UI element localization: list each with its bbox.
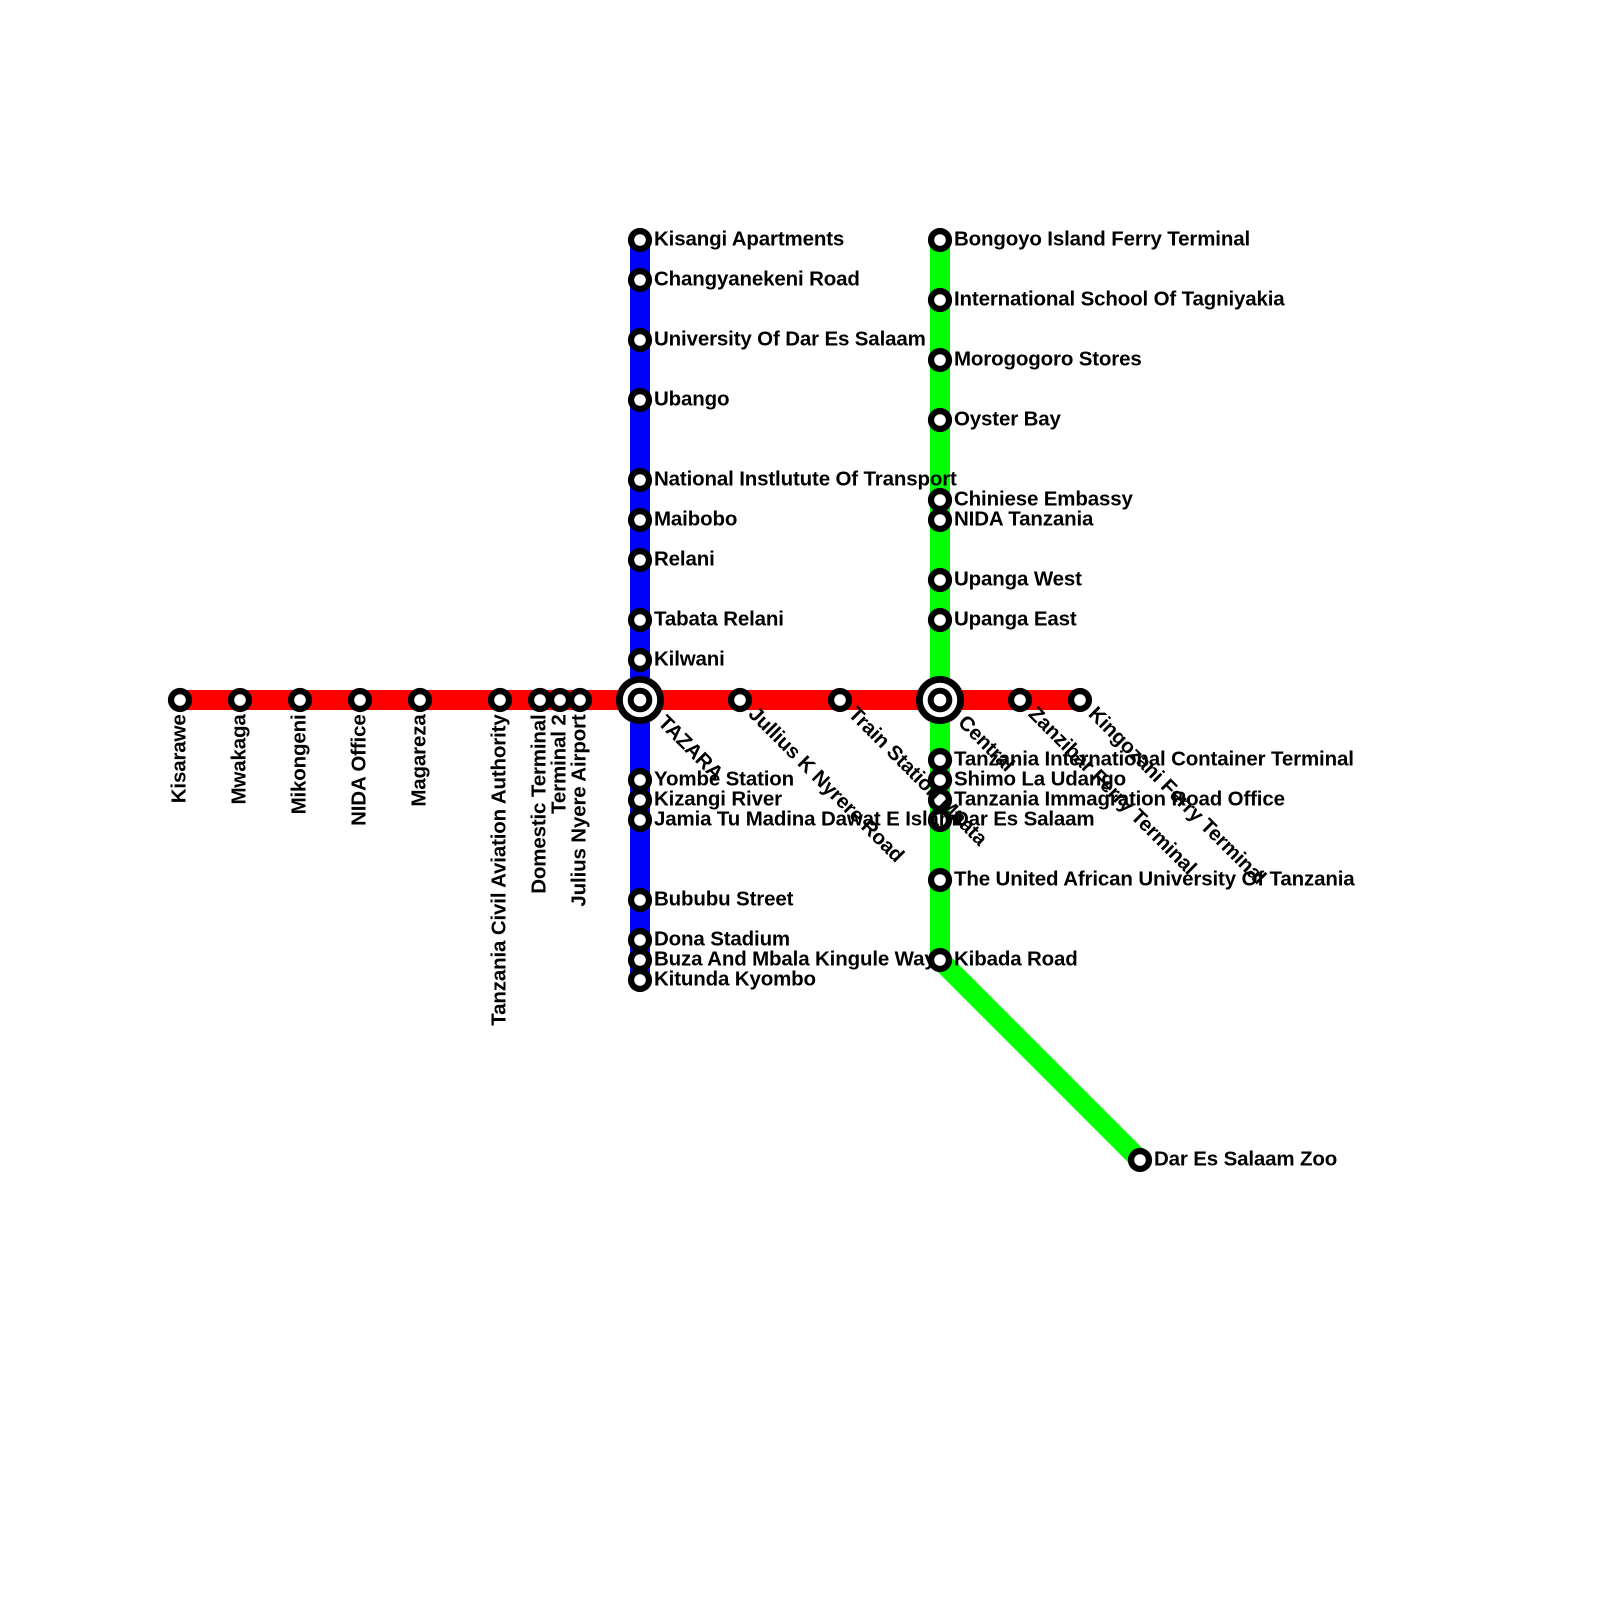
station Zanzibar Ferry Terminal marker bbox=[1008, 688, 1032, 712]
blue line bbox=[630, 240, 650, 980]
svg-text:Upanga East: Upanga East bbox=[954, 607, 1077, 630]
station Ubango marker bbox=[628, 388, 652, 412]
station Upanga East marker bbox=[928, 608, 952, 632]
station Tanzania Immagration Road Office marker bbox=[928, 788, 952, 812]
svg-text:Oyster Bay: Oyster Bay bbox=[954, 407, 1062, 430]
station Kitunda Kyombo marker bbox=[628, 968, 652, 992]
svg-text:Kisarawe: Kisarawe bbox=[167, 714, 190, 803]
station Tanzania Civil Aviation Authority marker bbox=[488, 688, 512, 712]
station Magareza marker bbox=[408, 688, 432, 712]
svg-text:Magareza: Magareza bbox=[407, 714, 430, 807]
station NIDA Office marker bbox=[348, 688, 372, 712]
station Domestic Terminal marker bbox=[528, 688, 552, 712]
station National Instlutute Of Transport marker bbox=[628, 468, 652, 492]
svg-text:Kisangi Apartments: Kisangi Apartments bbox=[654, 227, 844, 250]
station International School Of Tagniyakia marker bbox=[928, 288, 952, 312]
station Kingozani Ferry Terminal marker bbox=[1068, 688, 1092, 712]
station The United African University Of Tanzania marker bbox=[928, 868, 952, 892]
interchange Central marker bbox=[916, 676, 964, 724]
station Jamia Tu Madina Dawat E Islami marker bbox=[628, 808, 652, 832]
svg-text:Dar Es Salaam: Dar Es Salaam bbox=[954, 807, 1095, 830]
interchange TAZARA marker bbox=[616, 676, 664, 724]
station Yombe Station marker bbox=[628, 768, 652, 792]
svg-text:Upanga West: Upanga West bbox=[954, 567, 1082, 590]
station Dona Stadium marker bbox=[628, 928, 652, 952]
station Kisangi Apartments marker bbox=[628, 228, 652, 252]
svg-text:University Of Dar Es Salaam: University Of Dar Es Salaam bbox=[654, 327, 926, 350]
station Tanzania International Container Terminal marker bbox=[928, 748, 952, 772]
svg-text:Kibada Road: Kibada Road bbox=[954, 947, 1078, 970]
station Bububu Street marker bbox=[628, 888, 652, 912]
svg-text:The United African University: The United African University Of Tanzani… bbox=[954, 867, 1355, 890]
station Mwakaga marker bbox=[228, 688, 252, 712]
station Train Station Mnata marker bbox=[828, 688, 852, 712]
station Changyanekeni Road marker bbox=[628, 268, 652, 292]
svg-text:Morogogoro Stores: Morogogoro Stores bbox=[954, 347, 1142, 370]
svg-text:National Instlutute Of Transpo: National Instlutute Of Transport bbox=[654, 467, 957, 490]
svg-text:Changyanekeni Road: Changyanekeni Road bbox=[654, 267, 860, 290]
station Tabata Relani marker bbox=[628, 608, 652, 632]
station Kisarawe marker bbox=[168, 688, 192, 712]
svg-text:Maibobo: Maibobo bbox=[654, 507, 737, 530]
station Bongoyo Island Ferry Terminal marker bbox=[928, 228, 952, 252]
svg-text:NIDA Tanzania: NIDA Tanzania bbox=[954, 507, 1094, 530]
svg-text:Bongoyo Island Ferry Terminal: Bongoyo Island Ferry Terminal bbox=[954, 227, 1250, 250]
station Kilwani marker bbox=[628, 648, 652, 672]
svg-text:Tabata Relani: Tabata Relani bbox=[654, 607, 784, 630]
green line bbox=[940, 240, 1140, 1160]
svg-text:Mwakaga: Mwakaga bbox=[227, 714, 250, 805]
svg-text:Ubango: Ubango bbox=[654, 387, 729, 410]
svg-text:Kilwani: Kilwani bbox=[654, 647, 725, 670]
station Morogogoro Stores marker bbox=[928, 348, 952, 372]
svg-text:Mikongeni: Mikongeni bbox=[287, 714, 310, 814]
station NIDA Tanzania marker bbox=[928, 508, 952, 532]
station Oyster Bay marker bbox=[928, 408, 952, 432]
station Mikongeni marker bbox=[288, 688, 312, 712]
svg-text:International School Of Tagniy: International School Of Tagniyakia bbox=[954, 287, 1285, 310]
station Maibobo marker bbox=[628, 508, 652, 532]
svg-text:Jamia Tu Madina Dawat E Islami: Jamia Tu Madina Dawat E Islami bbox=[654, 807, 962, 830]
station Jullius K Nyrere Road marker bbox=[728, 688, 752, 712]
svg-text:NIDA Office: NIDA Office bbox=[347, 714, 370, 826]
svg-text:Dar Es Salaam Zoo: Dar Es Salaam Zoo bbox=[1154, 1147, 1337, 1170]
svg-text:Tanzania Civil Aviation Author: Tanzania Civil Aviation Authority bbox=[487, 714, 510, 1026]
station Relani marker bbox=[628, 548, 652, 572]
red line bbox=[180, 690, 1080, 710]
station Kibada Road marker bbox=[928, 948, 952, 972]
svg-text:Bububu Street: Bububu Street bbox=[654, 887, 794, 910]
station Julius Nyere Airport marker bbox=[568, 688, 592, 712]
station Kizangi River marker bbox=[628, 788, 652, 812]
station Upanga West marker bbox=[928, 568, 952, 592]
station Chiniese Embassy marker bbox=[928, 488, 952, 512]
station University Of Dar Es Salaam marker bbox=[628, 328, 652, 352]
svg-text:Kitunda Kyombo: Kitunda Kyombo bbox=[654, 967, 816, 990]
svg-text:Relani: Relani bbox=[654, 547, 715, 570]
station Terminal 2 marker bbox=[548, 688, 572, 712]
station Dar Es Salaam Zoo marker bbox=[1128, 1148, 1152, 1172]
station Shimo La Udango marker bbox=[928, 768, 952, 792]
station Dar Es Salaam marker bbox=[928, 808, 952, 832]
station Buza And Mbala Kingule Way marker bbox=[628, 948, 652, 972]
svg-text:Julius Nyere Airport: Julius Nyere Airport bbox=[567, 714, 590, 907]
